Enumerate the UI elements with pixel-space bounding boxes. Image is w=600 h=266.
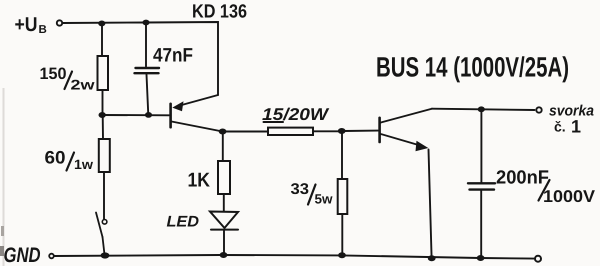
- node dot GND / switch: [101, 252, 110, 258]
- svg-text:B: B: [39, 24, 47, 36]
- svg-text:+U: +U: [15, 14, 38, 36]
- wire Q2 emitter down: [429, 150, 432, 258]
- capacitor C1 47nF: [135, 68, 160, 73]
- node dot GND / Q2 emitter: [428, 255, 436, 261]
- label +UB: [15, 14, 47, 36]
- wire 150 bottom leg: [102, 90, 104, 115]
- svg-text:BUS 14 (1000V/25A): BUS 14 (1000V/25A): [376, 52, 569, 83]
- node dot mid wire / R150-R60: [99, 112, 106, 118]
- svg-text:2w: 2w: [71, 77, 95, 93]
- switch S1: [96, 213, 107, 255]
- wire 200nF bottom leg: [480, 191, 482, 258]
- wire 15/20W to node B: [313, 130, 342, 132]
- wire node B down to 33 resistor: [341, 131, 343, 179]
- node dot node B (15/20W - 33 - Q2 base): [338, 128, 346, 134]
- wire 200nF top leg: [480, 109, 482, 182]
- node dot Q1 emitter junction: [219, 129, 227, 135]
- wire LED to GND: [223, 230, 225, 255]
- node dot Q2 collector / C 200nF: [478, 106, 485, 112]
- transistor Q1 KD136: [171, 95, 223, 132]
- wire node B to Q2 base: [344, 130, 378, 132]
- svg-text:1w: 1w: [74, 157, 94, 172]
- svg-text:33: 33: [291, 181, 310, 198]
- terminal +UB: [57, 20, 62, 25]
- label 33/5W: [291, 181, 333, 207]
- resistor 15/20W: [268, 128, 313, 135]
- diode LED: [210, 212, 238, 230]
- resistor 150/2W: [98, 56, 109, 90]
- wire 33 to GND: [341, 214, 343, 255]
- node dot GND / C 200nF: [477, 255, 485, 261]
- wire Q1 emitter to 15/20W: [226, 131, 268, 133]
- svg-text:5w: 5w: [315, 192, 333, 207]
- wire 47nF top leg: [145, 23, 147, 67]
- wire top +UB rail: [63, 22, 218, 95]
- label 150/2W: [40, 65, 95, 93]
- wire GND rail: [54, 255, 535, 259]
- terminal svorka c.1: [536, 107, 541, 112]
- transistor Q2 BUS14: [380, 109, 432, 152]
- terminal GND left: [49, 254, 54, 259]
- wire 60 bottom leg: [103, 172, 105, 219]
- capacitor C2 200nF: [468, 183, 495, 189]
- wire Q1 emitter chain to 1K: [222, 132, 224, 162]
- resistor 60/1W: [99, 139, 110, 172]
- svg-text:č.: č.: [554, 119, 566, 135]
- wire 47nF bottom leg: [147, 75, 149, 116]
- node dot top rail / C 47nF: [142, 20, 149, 26]
- wire 1K to LED: [223, 194, 225, 212]
- wire 150 top leg: [101, 24, 103, 57]
- label 200nF/1000V: [496, 168, 596, 207]
- svg-text:150: 150: [40, 65, 67, 83]
- svg-text:KD 136: KD 136: [192, 2, 247, 23]
- svg-text:47nF: 47nF: [153, 45, 193, 67]
- svg-text:200nF: 200nF: [496, 168, 549, 189]
- svg-text:60: 60: [45, 148, 66, 168]
- svg-text:GND: GND: [4, 244, 41, 266]
- wire Q2 collector run: [432, 109, 535, 110]
- svg-text:LED: LED: [167, 214, 200, 231]
- wire mid-left horizontal: [102, 114, 169, 116]
- svg-text:1: 1: [571, 117, 581, 137]
- svg-text:1000V: 1000V: [543, 187, 596, 206]
- label svorka c.1: [549, 103, 594, 137]
- resistor 1K: [218, 161, 230, 194]
- resistor 33/5W: [338, 179, 348, 214]
- label 15/20W: [262, 105, 330, 124]
- terminal bottom right: [535, 256, 541, 262]
- label 60/1W: [45, 148, 94, 173]
- node dot top rail / R 150: [98, 21, 105, 27]
- node dot GND / LED: [220, 252, 228, 258]
- wire 60 top leg: [102, 115, 104, 139]
- node dot mid wire / C 47nF bottom: [145, 112, 152, 118]
- node dot GND / R33: [338, 252, 346, 258]
- scan edge artifact left: [3, 88, 5, 266]
- svg-text:1K: 1K: [188, 170, 211, 192]
